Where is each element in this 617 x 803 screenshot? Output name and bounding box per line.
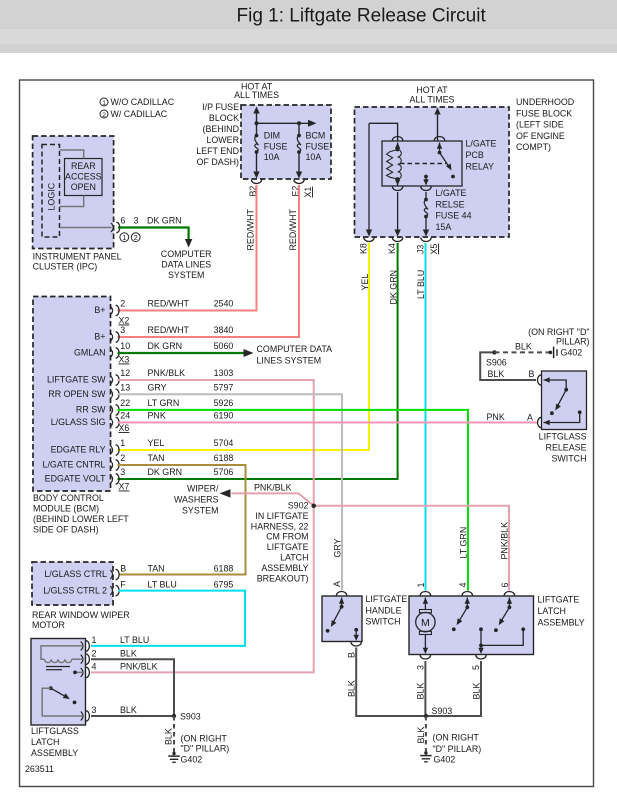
svg-text:LATCH: LATCH [280, 553, 308, 563]
svg-text:G402: G402 [181, 755, 203, 765]
svg-text:J3: J3 [416, 245, 426, 254]
latch pin 5 connector [471, 655, 486, 670]
connector X1 [303, 187, 313, 198]
svg-text:OF DASH): OF DASH) [197, 157, 239, 167]
svg-text:RED/WHT: RED/WHT [148, 325, 190, 335]
svg-text:6: 6 [121, 216, 126, 226]
wire LT BLU J3 to latch pin 1 [416, 243, 426, 591]
svg-text:GRY: GRY [148, 382, 167, 392]
svg-text:TAN: TAN [148, 453, 165, 463]
svg-text:B+: B+ [94, 305, 105, 315]
liftglass latch pin 4 stub [73, 671, 84, 675]
handle switch pin A [332, 581, 347, 607]
svg-text:PILLAR): PILLAR) [556, 337, 590, 347]
relay connector bumps [392, 137, 444, 191]
svg-text:X2: X2 [119, 316, 130, 326]
svg-text:BLK: BLK [120, 649, 137, 659]
svg-text:I/P FUSE: I/P FUSE [202, 102, 239, 112]
svg-text:1: 1 [102, 100, 106, 107]
svg-text:1: 1 [122, 235, 126, 242]
wire YEL 5704 [118, 243, 371, 450]
wire logic to indicator [60, 150, 84, 159]
svg-text:PCB: PCB [466, 150, 484, 160]
svg-text:ASSEMBLY: ASSEMBLY [31, 748, 78, 758]
svg-text:ASSEMBLY: ASSEMBLY [261, 563, 308, 573]
wire LT GRN 5926 [118, 410, 469, 591]
wire BLK S903 to G402 (right, dashed) [416, 716, 426, 752]
liftglass latch solenoid [41, 646, 84, 670]
svg-text:3: 3 [92, 705, 97, 715]
variant circles 1 2 [120, 233, 140, 242]
svg-text:LT GRN: LT GRN [148, 398, 180, 408]
svg-text:L/GATE CNTRL: L/GATE CNTRL [43, 460, 106, 470]
BCM pin 3 EDGATE VOLT connector [45, 467, 234, 484]
release switch contact arm [550, 390, 566, 415]
wire BLK handle switch B to S903 [346, 648, 424, 717]
wire BLK liftglass latch pin 2 to S903 [91, 659, 174, 716]
svg-text:BLK: BLK [471, 683, 481, 700]
connector X2 [119, 316, 130, 326]
svg-text:10: 10 [120, 341, 130, 351]
svg-text:RED/WHT: RED/WHT [288, 209, 298, 251]
BCM pin 2 L/GATE CNTRL connector [43, 453, 234, 470]
svg-text:LIFTGLASS: LIFTGLASS [31, 726, 79, 736]
svg-text:LIFTGATE: LIFTGATE [538, 595, 580, 605]
svg-text:SIDE OF DASH): SIDE OF DASH) [33, 525, 99, 535]
svg-text:6795: 6795 [214, 580, 234, 590]
splice S902 [251, 501, 316, 584]
svg-text:PNK: PNK [487, 412, 505, 422]
svg-text:263511: 263511 [25, 764, 54, 774]
svg-text:S903: S903 [180, 712, 201, 722]
svg-text:WASHERS: WASHERS [174, 495, 219, 505]
svg-text:TAN: TAN [148, 564, 165, 574]
svg-text:X1: X1 [303, 187, 313, 198]
svg-text:RELAY: RELAY [466, 162, 495, 172]
fuse BCM 10A [296, 123, 329, 178]
diagram number [25, 764, 54, 774]
feed hot at all times (I/P) [234, 82, 279, 124]
svg-text:B: B [120, 564, 126, 574]
fuse DIM 10A [253, 123, 287, 178]
svg-text:K8: K8 [359, 243, 369, 254]
svg-text:X6: X6 [119, 423, 130, 433]
svg-text:S902: S902 [288, 501, 309, 511]
svg-text:IN LIFTGATE: IN LIFTGATE [255, 511, 308, 521]
svg-text:RELEASE: RELEASE [546, 443, 587, 453]
svg-text:LOGIC: LOGIC [47, 182, 57, 210]
latch motor M [416, 583, 435, 655]
svg-text:2: 2 [120, 453, 125, 463]
svg-text:W/ CADILLAC: W/ CADILLAC [111, 109, 168, 119]
svg-text:B: B [346, 652, 356, 658]
svg-text:PNK/BLK: PNK/BLK [120, 662, 158, 672]
svg-text:PNK/BLK: PNK/BLK [500, 522, 510, 560]
liftglass latch pin 1 [81, 635, 150, 651]
arrow wiper/washers system [174, 484, 231, 516]
svg-text:REAR WINDOW WIPER: REAR WINDOW WIPER [32, 610, 130, 620]
svg-text:(BEHIND: (BEHIND [203, 124, 240, 134]
svg-text:L/GATE: L/GATE [436, 188, 467, 198]
connector B2 [248, 180, 262, 197]
wire TAN 6188 [118, 465, 246, 575]
svg-text:6: 6 [500, 583, 510, 588]
svg-text:4: 4 [458, 583, 468, 588]
svg-text:2: 2 [120, 299, 125, 309]
svg-text:L/GLASS SIG: L/GLASS SIG [51, 417, 106, 427]
svg-text:L/GLASS CTRL: L/GLASS CTRL [44, 569, 107, 579]
svg-text:(ON RIGHT: (ON RIGHT [433, 733, 480, 743]
svg-text:MOTOR: MOTOR [32, 620, 65, 630]
arrow computer data lines system (BCM) [244, 344, 333, 366]
liftglass latch assembly box [31, 639, 86, 759]
svg-text:LINES SYSTEM: LINES SYSTEM [257, 356, 322, 366]
svg-text:"D" PILLAR): "D" PILLAR) [181, 744, 230, 754]
svg-text:10A: 10A [306, 152, 322, 162]
svg-text:RED/WHT: RED/WHT [148, 299, 190, 309]
wire DK GRN 5706 [118, 243, 399, 479]
liftgate handle switch box [322, 594, 407, 642]
wire BLK liftglass latch pin 3 to S903 [91, 715, 172, 717]
svg-text:3840: 3840 [214, 325, 234, 335]
svg-text:LT GRN: LT GRN [459, 527, 469, 559]
svg-text:S906: S906 [486, 358, 507, 368]
ground G402 (right bottom) [420, 733, 481, 765]
svg-text:DK GRN: DK GRN [147, 216, 182, 226]
svg-text:1: 1 [416, 583, 426, 588]
svg-text:BREAKOUT): BREAKOUT) [257, 573, 309, 583]
svg-text:5: 5 [471, 665, 481, 670]
wire PNK/BLK S902 to latch pin 6 [314, 506, 510, 591]
connector K8 [359, 238, 375, 255]
svg-text:GMLAN: GMLAN [74, 348, 106, 358]
svg-text:DK GRN: DK GRN [388, 270, 398, 305]
svg-text:(ON RIGHT "D": (ON RIGHT "D" [528, 327, 589, 337]
BCM pin 3 B+ connector [94, 325, 233, 342]
svg-text:ALL TIMES: ALL TIMES [410, 95, 455, 105]
svg-text:PNK/BLK: PNK/BLK [254, 483, 292, 493]
svg-text:COMPT): COMPT) [516, 142, 551, 152]
svg-text:6190: 6190 [214, 411, 234, 421]
liftglass latch pin 3 [81, 705, 137, 721]
svg-text:13: 13 [120, 382, 130, 392]
svg-text:2: 2 [102, 112, 106, 119]
svg-text:BLK: BLK [416, 727, 426, 744]
svg-text:SYSTEM: SYSTEM [168, 270, 205, 280]
BCM pin 22 RR SW connector [76, 398, 234, 415]
svg-text:ACCESS: ACCESS [65, 172, 102, 182]
rear window wiper motor box [32, 562, 130, 630]
svg-text:RR SW: RR SW [76, 404, 106, 414]
svg-text:B: B [529, 369, 535, 379]
liftgate latch assembly box [409, 595, 585, 655]
BCM pin 13 RR OPEN SW connector [48, 382, 233, 399]
wiper motor pin B connector [44, 564, 233, 580]
svg-text:FUSE: FUSE [306, 142, 330, 152]
connector X7 [119, 482, 130, 492]
svg-text:LOWER: LOWER [206, 135, 239, 145]
svg-text:K4: K4 [387, 243, 397, 254]
BCM pin 12 LIFTGATE SW connector [47, 368, 233, 385]
wire BLK S903 to G402 (left, dashed) [164, 716, 175, 752]
svg-text:HARNESS, 22: HARNESS, 22 [251, 521, 309, 531]
svg-text:5797: 5797 [214, 382, 234, 392]
svg-text:COMPUTER: COMPUTER [161, 249, 212, 259]
svg-text:(BEHIND LOWER LEFT: (BEHIND LOWER LEFT [33, 514, 129, 524]
svg-text:DK GRN: DK GRN [148, 467, 183, 477]
svg-text:RELSE: RELSE [436, 199, 465, 209]
label PNK at pin A [487, 412, 505, 422]
svg-text:OPEN: OPEN [71, 182, 96, 192]
wire RED/WHT 3840 [118, 185, 300, 337]
indicator REAR ACCESS OPEN [65, 159, 103, 196]
wire indicator to logic [60, 196, 84, 207]
svg-text:BLOCK: BLOCK [209, 113, 239, 123]
svg-text:1: 1 [92, 635, 97, 645]
splice S903 (left) [172, 712, 201, 722]
svg-text:5706: 5706 [214, 467, 234, 477]
relay L/GATE PCB box [382, 139, 496, 187]
svg-text:L/GLSS CTRL 2: L/GLSS CTRL 2 [43, 586, 107, 596]
underhood fuse block box [355, 97, 575, 237]
svg-text:3: 3 [416, 665, 426, 670]
connector X5 [429, 244, 439, 255]
svg-text:24: 24 [120, 411, 130, 421]
svg-text:10A: 10A [264, 152, 280, 162]
svg-text:DATA LINES: DATA LINES [161, 260, 211, 270]
svg-text:3: 3 [120, 467, 125, 477]
wire PNK/BLK S902 to liftglass latch pin 4 [91, 504, 316, 673]
svg-text:LIFTGLASS: LIFTGLASS [539, 432, 587, 442]
body control module (BCM) box [33, 297, 129, 535]
svg-text:DIM: DIM [264, 131, 280, 141]
svg-text:5060: 5060 [214, 341, 234, 351]
wire DK GRN IPC to computer data lines [118, 228, 189, 240]
svg-text:G402: G402 [434, 755, 456, 765]
svg-text:BLK: BLK [416, 683, 426, 700]
svg-text:YEL: YEL [360, 274, 370, 291]
svg-text:LEFT END: LEFT END [196, 146, 239, 156]
svg-text:SWITCH: SWITCH [366, 617, 401, 627]
svg-text:15A: 15A [436, 222, 452, 232]
svg-text:M: M [421, 617, 430, 629]
svg-text:L/GATE: L/GATE [466, 139, 497, 149]
svg-text:LIFTGATE: LIFTGATE [267, 542, 309, 552]
I/P fuse block box [196, 102, 331, 179]
liftglass latch pin 2 [81, 649, 137, 665]
svg-text:5926: 5926 [214, 398, 234, 408]
ground G402 (right D pillar) [528, 327, 589, 358]
arrow computer data lines system (top) [161, 239, 212, 280]
svg-text:HANDLE: HANDLE [366, 605, 402, 615]
wire PNK/BLK S902 to wiper/washers [232, 483, 314, 506]
liftglass latch pin 4 [81, 662, 158, 678]
svg-text:LIFTGATE SW: LIFTGATE SW [47, 375, 106, 385]
svg-text:1: 1 [120, 438, 125, 448]
svg-text:COMPUTER DATA: COMPUTER DATA [257, 344, 333, 354]
BCM pin 1 EDGATE RLY connector [51, 438, 234, 455]
svg-text:BLK: BLK [346, 680, 356, 697]
svg-text:A: A [332, 581, 342, 587]
svg-text:BLK: BLK [488, 369, 505, 379]
svg-text:(ON RIGHT: (ON RIGHT [181, 734, 228, 744]
BCM pin 2 B+ connector [94, 299, 233, 316]
svg-text:LIFTGATE: LIFTGATE [366, 594, 408, 604]
relay switch [400, 143, 455, 186]
svg-text:2: 2 [134, 235, 138, 242]
svg-text:6188: 6188 [214, 564, 234, 574]
connector K4 [387, 238, 403, 255]
instrument panel cluster (IPC) box [33, 136, 122, 272]
svg-text:6188: 6188 [214, 453, 234, 463]
svg-text:UNDERHOOD: UNDERHOOD [516, 97, 574, 107]
svg-text:REAR: REAR [71, 161, 96, 171]
release switch pin B [529, 369, 569, 392]
svg-text:ALL TIMES: ALL TIMES [234, 90, 279, 100]
connector IPC pins 6/3 [111, 216, 182, 233]
connector J3 [416, 238, 432, 255]
latch pin 5 bus [478, 627, 525, 654]
svg-text:BLK: BLK [164, 728, 174, 745]
svg-text:LATCH: LATCH [31, 737, 59, 747]
latch pin 3 connector [416, 655, 431, 670]
wire BLK latch pin 5 to S903 [427, 661, 481, 716]
svg-text:2: 2 [92, 649, 97, 659]
wire PNK 6190 [118, 422, 538, 424]
svg-text:YEL: YEL [148, 438, 165, 448]
splice S906 [486, 350, 507, 367]
svg-text:X7: X7 [119, 482, 130, 492]
svg-text:EDGATE VOLT: EDGATE VOLT [45, 474, 106, 484]
svg-text:INSTRUMENT PANEL: INSTRUMENT PANEL [33, 252, 122, 262]
svg-text:S903: S903 [432, 706, 453, 716]
svg-text:SWITCH: SWITCH [551, 454, 586, 464]
svg-text:MODULE (BCM): MODULE (BCM) [33, 504, 99, 514]
logic block [42, 145, 60, 238]
BCM pin 10 GMLAN connector [74, 341, 233, 358]
svg-text:FUSE 44: FUSE 44 [436, 211, 472, 221]
svg-text:LATCH: LATCH [538, 606, 566, 616]
svg-text:3: 3 [120, 325, 125, 335]
svg-text:PNK/BLK: PNK/BLK [148, 368, 186, 378]
feed hot at all times (underhood) [410, 85, 455, 141]
BCM pin 24 L/GLASS SIG connector [51, 411, 234, 428]
latch switch pin 6 [494, 583, 515, 633]
svg-text:5704: 5704 [214, 438, 234, 448]
wire DK GRN 5060 GMLAN [118, 352, 244, 354]
wire K8 feed to relay coil [369, 123, 398, 140]
svg-text:FUSE: FUSE [264, 142, 288, 152]
legend note 2 W/ CADILLAC [100, 109, 168, 119]
connector X3 [119, 355, 130, 365]
handle switch pin B [346, 628, 361, 658]
connector X6 [119, 423, 130, 433]
svg-text:CM FROM: CM FROM [266, 532, 308, 542]
ground G402 (left) [168, 734, 229, 765]
branch arrow I/P feed [255, 120, 317, 127]
svg-text:3: 3 [134, 216, 139, 226]
svg-text:ASSEMBLY: ASSEMBLY [538, 618, 585, 628]
wiper motor pin F connector [43, 580, 233, 596]
wire LT BLU 6795 [91, 591, 245, 646]
svg-text:LT BLU: LT BLU [148, 580, 177, 590]
svg-text:LT BLU: LT BLU [120, 635, 149, 645]
title bar [0, 0, 617, 53]
svg-text:Fig 1: Liftgate Release Circui: Fig 1: Liftgate Release Circuit [237, 6, 487, 27]
svg-text:"D" PILLAR): "D" PILLAR) [433, 744, 482, 754]
svg-text:1303: 1303 [214, 368, 234, 378]
svg-text:FUSE BLOCK: FUSE BLOCK [516, 108, 572, 118]
svg-text:(LEFT SIDE: (LEFT SIDE [516, 120, 564, 130]
svg-text:HOT AT: HOT AT [416, 85, 448, 95]
svg-text:CLUSTER (IPC): CLUSTER (IPC) [33, 262, 98, 272]
wire BLK latch pin 3 to S903 [416, 661, 426, 714]
relay coil [387, 143, 402, 187]
svg-text:W/O CADILLAC: W/O CADILLAC [111, 97, 175, 107]
svg-text:4: 4 [92, 662, 97, 672]
liftglass release switch box [539, 371, 587, 464]
svg-text:WIPER/: WIPER/ [187, 484, 219, 494]
svg-text:BCM: BCM [306, 131, 326, 141]
svg-text:LT BLU: LT BLU [416, 270, 426, 299]
legend note 1 W/O CADILLAC [100, 97, 175, 107]
svg-text:OF ENGINE: OF ENGINE [516, 131, 565, 141]
svg-text:BLK: BLK [120, 705, 137, 715]
wire BLK release switch to S906 [480, 352, 536, 380]
fuse 44 L/GATE RELSE 15A [423, 188, 472, 237]
wire coil to K4 [394, 192, 400, 237]
liftglass latch switch [42, 686, 84, 716]
connector E2 [291, 180, 305, 197]
wire to K8 [366, 123, 372, 236]
svg-text:GRY: GRY [333, 538, 343, 557]
handle switch contact arm [326, 605, 344, 633]
svg-text:X5: X5 [429, 244, 439, 255]
wire RED/WHT 2540 [118, 185, 257, 311]
svg-text:RED/WHT: RED/WHT [246, 209, 256, 251]
release switch pin A [527, 410, 582, 427]
wire logic output [60, 227, 112, 229]
splice S903 (right) [424, 706, 453, 718]
svg-text:RR OPEN SW: RR OPEN SW [48, 389, 106, 399]
svg-text:BLK: BLK [515, 342, 532, 352]
wire GRY 5797 [118, 394, 343, 590]
svg-text:A: A [527, 413, 533, 423]
svg-text:12: 12 [120, 368, 130, 378]
svg-text:B+: B+ [94, 332, 105, 342]
svg-text:BODY CONTROL: BODY CONTROL [33, 493, 104, 503]
latch switch pin 4 [452, 583, 473, 632]
svg-text:DK GRN: DK GRN [148, 341, 183, 351]
svg-text:PNK: PNK [148, 411, 166, 421]
svg-text:F: F [120, 580, 126, 590]
svg-text:SYSTEM: SYSTEM [182, 506, 219, 516]
svg-text:G402: G402 [561, 348, 583, 358]
svg-text:X3: X3 [119, 355, 130, 365]
svg-text:22: 22 [120, 398, 130, 408]
wire BLK S906 to G402 (dashed) [495, 342, 550, 353]
wire PNK/BLK 1303 [118, 380, 314, 505]
svg-text:2540: 2540 [214, 299, 234, 309]
svg-text:EDGATE RLY: EDGATE RLY [51, 445, 106, 455]
